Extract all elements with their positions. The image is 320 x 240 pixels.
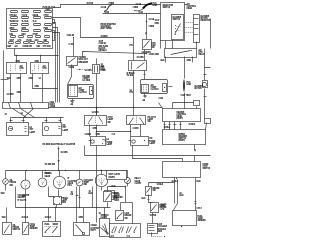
svg-text:ORN: ORN xyxy=(187,60,192,62)
svg-text:GRN: GRN xyxy=(17,78,22,80)
connector C200 xyxy=(3,102,56,109)
wire P drop to divider xyxy=(83,146,86,156)
body harness R1 xyxy=(163,156,211,178)
wire fuse drop 3 xyxy=(53,33,60,103)
svg-text:TO DIM SW: TO DIM SW xyxy=(45,164,56,166)
svg-text:BLK: BLK xyxy=(142,198,147,200)
svg-text:SW: SW xyxy=(153,190,156,192)
svg-text:GRN: GRN xyxy=(17,92,22,94)
svg-text:TLG: TLG xyxy=(33,21,37,23)
wire S1 out b xyxy=(19,74,22,103)
wire fuse drop 2 xyxy=(53,28,58,103)
wire staple run xyxy=(121,203,133,224)
wire feed drop with junction xyxy=(145,14,155,40)
fuse box F2 gauges xyxy=(54,190,69,208)
svg-text:C 30C: C 30C xyxy=(69,44,75,46)
courtesy switch S6b xyxy=(127,116,157,125)
wire courtesy outputs xyxy=(85,125,131,137)
wire tail light drop xyxy=(95,74,98,116)
wire mid sloping run xyxy=(83,52,160,57)
wire relay outputs xyxy=(161,49,211,81)
cluster connector W xyxy=(110,224,141,239)
svg-text:LINK: LINK xyxy=(153,5,158,7)
svg-text:HTR: HTR xyxy=(20,68,25,70)
svg-text:C100 TRLR: C100 TRLR xyxy=(181,95,192,97)
wire divider to bus arrow xyxy=(58,147,69,171)
wire main feed horizontal xyxy=(103,12,161,15)
wire fuse to blower circuit xyxy=(53,18,134,61)
wire H2a entries xyxy=(159,101,200,109)
svg-text:2 RED: 2 RED xyxy=(109,3,115,5)
svg-text:18 BLK: 18 BLK xyxy=(157,184,164,186)
svg-text:STP HZD: STP HZD xyxy=(43,46,52,48)
wire fuse block bottom bus xyxy=(15,49,59,64)
switch B1 oil pressure xyxy=(3,223,21,235)
indicator G4 coolant xyxy=(76,171,94,187)
wire fuse block top feed xyxy=(53,5,187,8)
svg-text:SWITCH: SWITCH xyxy=(163,7,171,9)
svg-text:CTSY: CTSY xyxy=(161,206,167,208)
svg-text:FUEL: FUEL xyxy=(45,173,51,175)
node body wiring labels xyxy=(161,204,203,212)
wire relay K2 feed b xyxy=(143,50,146,61)
svg-text:LH SIDE: LH SIDE xyxy=(83,80,91,82)
wire H2a outputs with ticks xyxy=(164,122,196,130)
module LC low coolant xyxy=(148,213,168,238)
wire Q to dome switch xyxy=(133,146,183,162)
svg-text:GRN: GRN xyxy=(155,23,160,25)
fuel tank unit R2 xyxy=(173,204,207,228)
svg-text:CLSTR: CLSTR xyxy=(101,217,108,219)
connector Q heater head xyxy=(129,137,157,146)
svg-text:SENDER: SENDER xyxy=(30,228,39,230)
fuse F-row6 xyxy=(8,42,52,49)
svg-text:BLK: BLK xyxy=(89,193,94,195)
fuse F-row2 xyxy=(10,17,52,24)
svg-text:TIMER: TIMER xyxy=(113,198,120,200)
wire H2b down arrow xyxy=(194,145,196,152)
svg-text:20 BLK: 20 BLK xyxy=(172,181,179,183)
svg-text:18 ORN: 18 ORN xyxy=(61,152,69,154)
switch T3 xyxy=(116,211,133,221)
svg-text:C2 (B): C2 (B) xyxy=(69,67,75,69)
switch S1 xyxy=(7,63,27,74)
lamp L2 xyxy=(43,123,69,136)
connector tab fuse block right b xyxy=(53,31,55,41)
resistor R10 blower resistor xyxy=(185,15,211,43)
wire breaker feed xyxy=(72,38,75,57)
sender box SB2 fuel xyxy=(105,191,124,203)
heater module H2a xyxy=(163,109,201,122)
wire drops to bottom row xyxy=(2,208,105,223)
svg-text:CLUTCH: CLUTCH xyxy=(79,92,88,94)
svg-text:ORN: ORN xyxy=(79,217,84,219)
wire lamp feed bar xyxy=(10,118,64,123)
switch S2 xyxy=(31,63,49,74)
svg-text:TL BLK: TL BLK xyxy=(22,21,29,23)
svg-text:C100 B3: C100 B3 xyxy=(99,43,107,45)
courtesy lamp switch S6 xyxy=(85,108,114,126)
svg-text:SWITCH: SWITCH xyxy=(13,229,21,231)
wire gauge bus xyxy=(6,170,128,175)
svg-text:HORN: HORN xyxy=(23,46,29,48)
svg-text:8 PLT: 8 PLT xyxy=(197,208,203,210)
svg-text:C100: C100 xyxy=(101,69,106,71)
wire selector to relay box xyxy=(164,41,167,49)
svg-text:SNDR: SNDR xyxy=(53,224,59,226)
wire lamp feed diagonals xyxy=(13,109,27,118)
fuse block U1 outline xyxy=(7,7,56,49)
svg-text:LINK: LINK xyxy=(187,84,192,86)
wire fuse drop 1 xyxy=(53,23,56,103)
wire G2 drop to fuse box xyxy=(49,187,54,197)
svg-text:18 BRN: 18 BRN xyxy=(101,36,108,38)
svg-text:RESISTOR: RESISTOR xyxy=(201,20,211,22)
fuse F-row3 xyxy=(10,24,52,31)
svg-text:ORN: ORN xyxy=(29,78,34,80)
fuse F-row4 xyxy=(10,30,52,37)
svg-text:SWITCH: SWITCH xyxy=(173,19,181,21)
svg-text:MOTOR: MOTOR xyxy=(195,88,203,90)
svg-text:18 BLK: 18 BLK xyxy=(164,127,171,129)
switch B2 coolant temp xyxy=(23,223,39,235)
svg-text:SENDER: SENDER xyxy=(198,220,207,222)
svg-text:FUEL: FUEL xyxy=(45,224,51,226)
wire G0 drop xyxy=(1,185,6,196)
wire S1 out a xyxy=(9,74,12,103)
svg-text:SW: SW xyxy=(148,121,151,123)
svg-text:PKG: PKG xyxy=(68,185,73,187)
ground G-A4 left xyxy=(71,99,75,107)
svg-text:BLK: BLK xyxy=(161,60,166,62)
heater module H2b xyxy=(163,130,206,145)
connector P heater head xyxy=(89,137,114,147)
gauge G2 fuel xyxy=(38,171,51,187)
fan switch S5 xyxy=(142,40,157,55)
svg-text:30 FUS: 30 FUS xyxy=(87,3,94,5)
fusible link F20 xyxy=(181,79,192,109)
blower switch U3 xyxy=(172,15,184,40)
wire S2 out a xyxy=(33,74,58,89)
svg-text:ORN: ORN xyxy=(96,134,101,136)
svg-text:20 BLK: 20 BLK xyxy=(22,217,29,219)
wire G1 drop xyxy=(22,190,26,208)
svg-text:3 RED: 3 RED xyxy=(133,7,139,9)
wire breaker out xyxy=(68,65,93,85)
motor M1 blower xyxy=(195,81,208,119)
receptacle RC cigar xyxy=(74,223,100,236)
svg-text:PRESS: PRESS xyxy=(10,182,17,184)
node section divider xyxy=(85,154,211,157)
svg-text:SWITCH: SWITCH xyxy=(203,168,211,170)
svg-text:INST CLSTR: INST CLSTR xyxy=(109,174,121,176)
svg-text:BLK: BLK xyxy=(197,181,202,183)
fuse F-row5 xyxy=(10,36,50,43)
wire R1 outputs xyxy=(172,178,202,211)
gauge G6 rally xyxy=(125,171,142,186)
svg-text:BLK: BLK xyxy=(112,186,117,188)
selector switch U2 xyxy=(155,3,185,49)
node right edge connector xyxy=(205,119,211,130)
switch T2 seat belt xyxy=(104,192,120,208)
wire S6b outputs xyxy=(130,125,141,137)
svg-text:SW: SW xyxy=(108,122,111,124)
label box T1 xyxy=(107,171,127,180)
wire G6 drop run xyxy=(108,184,128,203)
svg-text:HTR: HTR xyxy=(43,68,48,70)
splice S100 with fusible link A xyxy=(101,3,115,15)
wire BRK to SW2 xyxy=(142,195,153,203)
svg-text:18 PNK: 18 PNK xyxy=(150,215,157,217)
node engine compartment note xyxy=(83,76,91,83)
connector tab fuse block right a xyxy=(53,20,55,24)
gauge G5 tachometer xyxy=(95,171,123,187)
wire bottom connector run xyxy=(16,187,111,209)
note text block junction xyxy=(101,23,117,31)
switch SW2 park brake xyxy=(150,203,168,218)
node A/C control head label xyxy=(187,3,197,11)
ground G-A4 right xyxy=(143,94,164,103)
svg-text:BLK: BLK xyxy=(180,195,185,197)
speedometer SPD xyxy=(100,215,110,237)
svg-text:20 BLK: 20 BLK xyxy=(189,124,196,126)
svg-text:18 ORN: 18 ORN xyxy=(137,57,145,59)
svg-text:ORN: ORN xyxy=(35,86,40,88)
svg-text:RCPT: RCPT xyxy=(91,230,97,232)
compressor clutch B xyxy=(141,80,173,94)
svg-text:C100: C100 xyxy=(159,98,164,100)
wire K2 to body xyxy=(132,71,135,108)
svg-text:SW: SW xyxy=(125,218,128,220)
relay K2 compressor control xyxy=(101,57,147,78)
wire right edge drop xyxy=(209,19,212,49)
node junction bus main xyxy=(49,107,163,109)
wire S2 out b xyxy=(41,74,44,103)
wire left edge run xyxy=(1,78,9,81)
wire heater head drop xyxy=(95,146,98,223)
svg-text:2 RED: 2 RED xyxy=(149,26,155,28)
wire relay K2 out xyxy=(144,71,146,80)
gauge G1 voltmeter xyxy=(18,171,31,203)
switch B3 dual xyxy=(43,222,61,237)
compressor clutch A xyxy=(68,85,94,99)
svg-text:ORN: ORN xyxy=(93,128,98,130)
wire G5 drops xyxy=(89,187,102,208)
relay K1 heater xyxy=(165,49,206,58)
wire G4 drops xyxy=(71,187,81,223)
gauge G3 speedo cluster xyxy=(53,171,77,189)
splice with fusible link B xyxy=(133,3,158,15)
svg-text:CLUTCH: CLUTCH xyxy=(151,89,160,91)
switch BRK brake xyxy=(146,183,175,196)
lamp L1 xyxy=(7,123,36,136)
svg-text:TURN BU: TURN BU xyxy=(10,21,19,23)
fuse F-row1 xyxy=(10,9,52,18)
indicator G0 oil xyxy=(3,171,17,188)
svg-text:WDO CKT: WDO CKT xyxy=(79,59,89,61)
connector C tail lights xyxy=(93,59,107,74)
svg-text:SW: SW xyxy=(152,47,155,49)
svg-text:18 LT: 18 LT xyxy=(155,20,161,22)
svg-text:18 BLK: 18 BLK xyxy=(45,217,52,219)
svg-text:CLSTR: CLSTR xyxy=(135,183,142,185)
breaker CB1 power window xyxy=(67,57,89,66)
